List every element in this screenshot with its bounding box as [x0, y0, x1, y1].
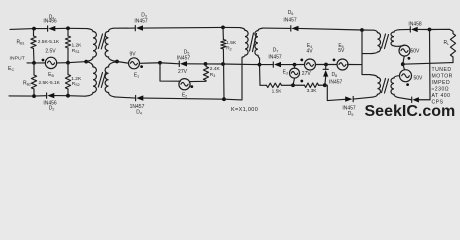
wire bottom right rail — [419, 99, 430, 101]
node T1 primary center tap — [84, 60, 88, 64]
node R2 mid — [221, 62, 225, 66]
svg-text:1.5K: 1.5K — [226, 40, 237, 46]
node E3 top — [293, 63, 297, 67]
resistor RB1 — [33, 29, 35, 36]
wire corner down to bottom right rail — [325, 85, 345, 100]
wire EB to RS junction — [57, 62, 68, 64]
svg-text:1.2K: 1.2K — [71, 76, 82, 82]
svg-text:2.4K: 2.4K — [210, 66, 221, 72]
wire E2 to R3 bottom — [190, 81, 206, 82]
source E1 9V — [117, 62, 128, 64]
node T1 secondary center tap — [115, 60, 119, 64]
node T2 secondary bottom — [258, 63, 262, 67]
node R2 bottom — [222, 97, 226, 101]
svg-text:50V: 50V — [411, 49, 421, 55]
diode D9 (points right) — [345, 96, 372, 101]
transformer T1 secondary lower coil — [105, 62, 117, 97]
wire E3 bottom sub-rail — [259, 65, 262, 86]
diode D10 — [399, 97, 419, 102]
resistor RS1 — [67, 28, 69, 36]
diode D1 — [48, 26, 68, 31]
svg-text:AT 400: AT 400 — [432, 93, 451, 99]
node D8 top — [324, 63, 328, 67]
wire T3 coil to 50V source — [399, 45, 405, 46]
wire right long vertical — [429, 30, 432, 100]
node mid RS — [66, 61, 70, 65]
node bottom RS2 — [66, 94, 70, 98]
wire bottom rail to T2 vertical — [224, 57, 242, 100]
node input — [32, 61, 36, 65]
svg-text:INPUT: INPUT — [10, 55, 25, 61]
transformer T1 primary upper coil — [86, 29, 96, 62]
node E2 loop left — [158, 61, 162, 65]
resistor R3 — [205, 64, 207, 67]
node top of RB1 — [32, 27, 36, 31]
svg-text:IN458: IN458 — [408, 22, 422, 28]
transformer T1 secondary upper coil — [105, 28, 117, 61]
diode IN458 — [410, 27, 429, 32]
svg-text:K=X1,000: K=X1,000 — [231, 107, 258, 113]
source E4 4V — [305, 59, 316, 70]
resistor RS2 — [67, 63, 69, 75]
svg-text:IN457: IN457 — [177, 55, 191, 61]
wire T1 to D4 — [115, 97, 136, 98]
transformer T3 core — [382, 34, 389, 93]
resistor RB2 — [33, 63, 35, 75]
svg-text:MOTOR: MOTOR — [432, 73, 453, 79]
svg-text:≈230Ω: ≈230Ω — [432, 87, 450, 93]
resistor 1.5K — [267, 83, 282, 87]
diode D3 — [135, 25, 223, 30]
resistor R2 — [222, 27, 224, 39]
node D8 bottom — [323, 83, 327, 87]
wire mid horizontal right — [403, 63, 453, 65]
transformer T1 core — [98, 34, 105, 87]
diode D4 — [136, 95, 224, 100]
wire top rail left — [10, 28, 48, 31]
source EB 2.5V — [45, 57, 56, 68]
wire E1 to D5 — [140, 62, 161, 65]
node E3 bottom — [291, 83, 295, 87]
wire top rail to transformer T1 — [68, 27, 88, 29]
wire bottom rail left — [9, 95, 47, 97]
transformer T2 secondary coil — [255, 28, 263, 58]
source E3 27V — [294, 65, 296, 69]
node 50V center tap — [401, 62, 405, 66]
diode D8 vertical — [325, 65, 327, 70]
wire T2 secondary bottom to E-row — [259, 58, 261, 64]
transformer T3 primary lower coil — [370, 75, 381, 98]
resistor RL — [450, 34, 455, 58]
svg-text:9V: 9V — [129, 52, 136, 58]
wire to T2 — [223, 26, 240, 28]
resistor 3.3K — [305, 83, 319, 88]
node RL top — [428, 28, 432, 32]
source E5 5V — [326, 64, 337, 66]
node bottom RB2 — [32, 94, 36, 98]
svg-text:27V: 27V — [302, 71, 312, 77]
svg-text:SeekIC.com: SeekIC.com — [365, 103, 456, 120]
node D6 rail T3 — [360, 28, 364, 32]
svg-text:TUNED: TUNED — [432, 67, 452, 73]
svg-text:2.5V: 2.5V — [45, 48, 56, 54]
diode D6 — [291, 26, 362, 31]
wire bottom rail to T1 — [68, 95, 85, 98]
svg-text:1.2K: 1.2K — [72, 43, 83, 49]
svg-text:IN457: IN457 — [283, 18, 297, 24]
wire to T1 primary center tap — [68, 62, 86, 63]
diode D5 — [179, 61, 205, 66]
node top of R2 — [221, 26, 225, 30]
svg-text:5V: 5V — [338, 48, 345, 54]
svg-text:2.5K-5.1K: 2.5K-5.1K — [38, 39, 60, 45]
wire E2 loop — [160, 63, 180, 81]
transformer T3 primary upper coil — [371, 30, 381, 53]
transformer T2 core — [250, 33, 257, 52]
node top of RS1 — [66, 26, 70, 30]
transformer T1 primary lower coil — [85, 62, 96, 96]
svg-text:IN457: IN457 — [134, 19, 148, 25]
wire E4 row — [295, 64, 305, 66]
svg-text:IN457: IN457 — [268, 55, 282, 61]
label TUNED MOTOR IMPED block — [432, 67, 453, 106]
transformer T3 secondary upper coil — [391, 30, 399, 47]
wire E-row left — [27, 62, 45, 64]
svg-text:IN457: IN457 — [329, 80, 343, 86]
node R3 top — [204, 62, 208, 66]
svg-text:IN456: IN456 — [43, 19, 57, 25]
wire D6 rail — [263, 27, 291, 29]
diode D2 — [47, 93, 68, 98]
svg-text:3.3K: 3.3K — [307, 88, 318, 94]
source V1 50V upper — [399, 45, 410, 56]
wire RL top lead — [430, 29, 454, 33]
svg-text:50V: 50V — [414, 75, 424, 81]
svg-text:1.5K: 1.5K — [272, 88, 283, 94]
wire E-row to D7 — [260, 64, 274, 66]
diode D7 — [273, 62, 294, 67]
svg-text:27V: 27V — [178, 69, 188, 75]
transformer T3 secondary lower coil — [391, 76, 400, 98]
wire D6 rail to T3 — [362, 29, 374, 31]
svg-text:4V: 4V — [306, 48, 313, 54]
wire T3 left vertical — [362, 30, 370, 75]
svg-text:IMPED: IMPED — [432, 80, 451, 86]
wire T1 to D3 — [114, 27, 136, 29]
source E2 27V — [179, 79, 190, 90]
svg-text:2.5K-5.1K: 2.5K-5.1K — [39, 80, 61, 86]
wire IN458 rail — [400, 28, 411, 30]
wire V1 to center node — [403, 56, 404, 64]
transformer T2 primary coil — [240, 28, 248, 58]
source V2 50V lower — [403, 64, 405, 70]
